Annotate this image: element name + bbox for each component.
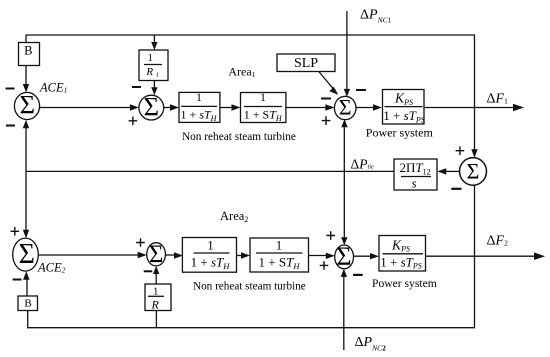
- wire: S6 to power system block PS2: [354, 255, 372, 257]
- block PS1: KPS/(1+sTPS): [383, 90, 425, 125]
- sign: minus below-left of S4: [451, 188, 461, 190]
- wire: tie line down into S6 top: [343, 171, 345, 238]
- wire: tie line from T12 block to left column: [26, 170, 394, 172]
- wire: dF2 output with arrow: [426, 255, 538, 257]
- block 1/R1: [139, 50, 168, 81]
- sign: plus above S4: [456, 146, 465, 155]
- sign: minus bottom-left of S5: [144, 270, 153, 272]
- wire: S4 out left to T12 block: [446, 170, 459, 172]
- svg-text:1: 1: [153, 286, 159, 298]
- svg-text:1: 1: [260, 92, 266, 104]
- svg-text:1: 1: [276, 238, 282, 252]
- sign: plus at S2 left-bottom: [129, 117, 138, 126]
- svg-text:1: 1: [156, 71, 159, 78]
- sign: plus bottom-left of S6: [320, 261, 329, 270]
- svg-text:Σ: Σ: [149, 241, 164, 268]
- block T12: 2*PI*T12/s: [394, 159, 437, 190]
- svg-text:Σ: Σ: [19, 239, 35, 270]
- wire: arrow down into tie summer S4 top: [471, 149, 477, 158]
- summer ACE1 (S1): [14, 92, 39, 119]
- summer S3: [334, 96, 356, 119]
- wire: T3 to T4: [237, 255, 243, 257]
- svg-text:ΔF2: ΔF2: [487, 234, 509, 249]
- sign: minus at ACE2 bottom input: [13, 279, 22, 281]
- sign: minus at S2 top input: [132, 86, 141, 88]
- block T4: 1/(1+STH) area2: [250, 238, 309, 272]
- svg-text:s: s: [412, 177, 417, 191]
- svg-text:Power system: Power system: [366, 126, 434, 140]
- wire: S4 bottom down, dF2 feedback to B2: [28, 185, 475, 328]
- summer S6: [335, 245, 354, 269]
- sign: plus top-left of S5: [136, 238, 145, 247]
- wire: tie line up into ACE1 bottom: [25, 127, 27, 172]
- wire: dPnc1 vertical into S3 top: [346, 11, 348, 90]
- wire: dPnc2 vertical up into S6 bottom: [343, 277, 345, 351]
- wire: SLP diagonal into S3: [319, 72, 335, 91]
- block SLP: [277, 54, 335, 72]
- summer ACE2 (S7): [13, 238, 39, 271]
- wire: ACE1 out to summer S2: [40, 107, 131, 109]
- svg-text:Σ: Σ: [336, 242, 351, 271]
- wire: branch arrow down into 1/R1 block top: [153, 35, 155, 43]
- svg-text:ΔPNC1: ΔPNC1: [360, 7, 392, 24]
- wire: 1/R1 down to S2: [153, 81, 155, 89]
- sign: minus left of S3: [321, 98, 331, 100]
- wire: T1 to T2: [220, 107, 232, 109]
- svg-text:ACE1: ACE1: [39, 81, 67, 95]
- svg-text:1: 1: [196, 92, 202, 104]
- svg-text:R: R: [151, 298, 160, 312]
- svg-text:Σ: Σ: [144, 92, 159, 122]
- block B2: [18, 296, 38, 311]
- svg-text:1: 1: [207, 238, 213, 252]
- sign: plus at ACE2 top input: [11, 227, 20, 236]
- wire: 1/R down to bottom feedback line: [155, 311, 157, 328]
- wire: S2 to turbine block T1: [164, 107, 171, 109]
- sign: minus bottom-right of S6: [353, 274, 363, 276]
- svg-text:1: 1: [147, 52, 153, 64]
- summer S2: [139, 95, 164, 120]
- svg-text:Non reheat steam turbine: Non reheat steam turbine: [193, 281, 306, 293]
- wire: B2 up into ACE2 bottom: [26, 280, 28, 297]
- sign: minus at ACE1 bottom input: [6, 125, 15, 127]
- wire: tie line up into S3 bottom: [343, 127, 345, 172]
- wire: dF1 output with arrow: [424, 107, 516, 109]
- svg-text:Power system: Power system: [372, 277, 437, 290]
- sign: minus at ACE1 top input: [6, 88, 15, 90]
- block T1: 1/(1+sTH): [179, 92, 220, 122]
- block PS2: KPS/(1+sTPS) area2: [379, 236, 426, 272]
- wire: tie line down into ACE2 top: [25, 171, 27, 231]
- wire: T4 to summer S6: [309, 255, 328, 257]
- wire: 1/R up into S5 bottom: [155, 274, 157, 284]
- svg-text:Area2: Area2: [220, 209, 248, 224]
- svg-text:ΔPtie: ΔPtie: [351, 156, 375, 171]
- wire: T2 to summer S3: [286, 107, 327, 109]
- summer S5: [147, 243, 166, 266]
- svg-text:Σ: Σ: [339, 95, 352, 120]
- block B1: [19, 43, 40, 66]
- svg-text:Σ: Σ: [20, 90, 35, 120]
- sign: plus bottom-left of S3: [322, 116, 331, 125]
- svg-text:R: R: [145, 66, 153, 78]
- wire: B1 to ACE1 summer: [25, 66, 27, 86]
- svg-text:SLP: SLP: [294, 56, 318, 71]
- svg-text:ΔF1: ΔF1: [487, 92, 509, 107]
- sign: plus top-left of S6: [326, 231, 335, 240]
- svg-text:Area1: Area1: [228, 65, 255, 80]
- wire: S3 to power system block PS1: [356, 107, 375, 109]
- svg-text:ΔPNC2: ΔPNC2: [355, 335, 387, 352]
- svg-text:Σ: Σ: [467, 158, 480, 183]
- svg-text:B: B: [24, 298, 31, 310]
- svg-text:ACE2: ACE2: [37, 261, 66, 275]
- wire: S5 to turbine block T3: [166, 254, 176, 256]
- sign: minus top-right of S3: [356, 89, 366, 91]
- block 1/R (area 2): [145, 284, 171, 311]
- wire: ACE2 out to summer S5: [38, 254, 138, 256]
- svg-text:B: B: [24, 44, 32, 58]
- block T2: 1/(1+STH): [241, 93, 286, 123]
- wire: top feedback line from dF1 tap to B1 and 1/R1 (y=35): [26, 35, 475, 154]
- summer S4 (tie-line): [460, 158, 487, 186]
- block T3: 1/(1+sTH) area2: [182, 238, 236, 273]
- svg-text:Non reheat steam turbine: Non reheat steam turbine: [182, 131, 296, 143]
